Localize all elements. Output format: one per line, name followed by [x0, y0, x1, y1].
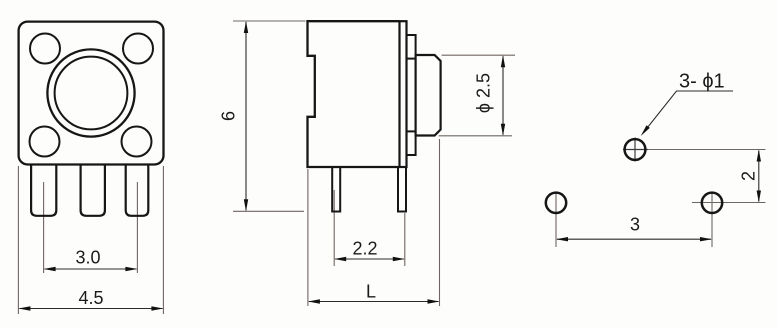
dim 4.5 extension line left [17, 166, 19, 314]
dim 2 arrow bottom [757, 191, 761, 203]
dim phi2.5 dimension line [502, 56, 504, 135]
centerline through bottom-right hole (horizontal, to dim 2) [692, 202, 766, 204]
svg-text:3- ϕ1: 3- ϕ1 [679, 71, 725, 93]
dim 2 arrow top [757, 150, 761, 162]
button inner circle [55, 57, 128, 130]
button outer circle [47, 49, 134, 136]
dim L dimension line [309, 301, 439, 303]
svg-text:6: 6 [219, 111, 239, 121]
corner hole top-left [30, 34, 60, 64]
dim phi2.5 arrow bottom [501, 124, 505, 136]
dim 2.2 extension line left [333, 190, 335, 266]
svg-text:ϕ 2.5: ϕ 2.5 [474, 73, 494, 113]
dim 6 arrow bottom [244, 199, 248, 211]
corner hole top-right [123, 34, 153, 64]
dim 3 dimension line [557, 238, 711, 240]
svg-text:4.5: 4.5 [78, 288, 103, 308]
bottom mounting tab [407, 131, 416, 155]
dim 3.0 arrow right [125, 267, 137, 271]
svg-text:2: 2 [739, 171, 759, 181]
pin left (front view) [31, 165, 56, 216]
dim phi2.5 arrow top [501, 55, 505, 67]
switch body outline (front view) [19, 22, 164, 165]
dim 2.2 dimension line [335, 258, 404, 260]
top mounting tab [407, 35, 416, 59]
dim 3 arrow right [700, 237, 712, 241]
dim L extension line right [439, 139, 441, 306]
corner hole bottom-left [30, 127, 60, 157]
centerline through bottom-left hole (vertical, to dim 3) [555, 192, 557, 248]
pin middle (front view) [81, 165, 105, 216]
centerline through top hole (vertical) [634, 138, 636, 162]
svg-text:2.2: 2.2 [352, 239, 377, 259]
plunger button (side view) [416, 55, 441, 136]
svg-text:L: L [366, 282, 376, 302]
dim L extension line left [307, 169, 309, 306]
svg-text:3: 3 [630, 215, 640, 235]
dim 6 extension line bottom [233, 210, 304, 212]
dim 6 dimension line [245, 22, 247, 210]
hole bottom-left [546, 193, 566, 213]
dim 6 extension line top [233, 20, 306, 22]
leader line for 3-phi1 label [644, 91, 734, 133]
dim 2.2 arrow right [393, 257, 405, 261]
front plate strip [400, 21, 407, 167]
dim 3.0 arrow left [44, 267, 56, 271]
pin right (front view) [126, 165, 149, 216]
dim 2 dimension line [758, 151, 760, 202]
dim phi2.5 extension line bottom [439, 135, 512, 137]
dim 3.0 dimension line [45, 268, 137, 270]
hole bottom-right [702, 193, 722, 213]
dim 3 arrow left [556, 237, 568, 241]
switch body outline (side view) [308, 21, 400, 167]
hole top [625, 139, 646, 160]
dim 4.5 dimension line [19, 308, 162, 310]
pin right (side view) [398, 167, 406, 212]
corner hole bottom-right [122, 127, 152, 157]
leader arrowhead [641, 125, 650, 136]
dim phi2.5 extension line top [442, 54, 515, 56]
dim 2.2 arrow left [334, 257, 346, 261]
dim 6 arrow top [244, 21, 248, 33]
svg-text:3.0: 3.0 [75, 248, 100, 268]
dim 4.5 arrow right [151, 306, 163, 310]
dim 4.5 extension line right [162, 166, 164, 314]
dim L arrow left [308, 299, 320, 303]
pin left (side view) [332, 167, 340, 212]
dim 3.0 extension line left [43, 182, 45, 273]
centerline through top hole (horizontal, to dim 2) [623, 149, 648, 151]
centerline through bottom-right hole (vertical, to dim 3) [711, 192, 713, 247]
dim 2.2 extension line right [404, 213, 406, 266]
dim 3.0 extension line right [136, 182, 138, 273]
dim 4.5 arrow left [18, 306, 30, 310]
dim L arrow right [428, 299, 440, 303]
